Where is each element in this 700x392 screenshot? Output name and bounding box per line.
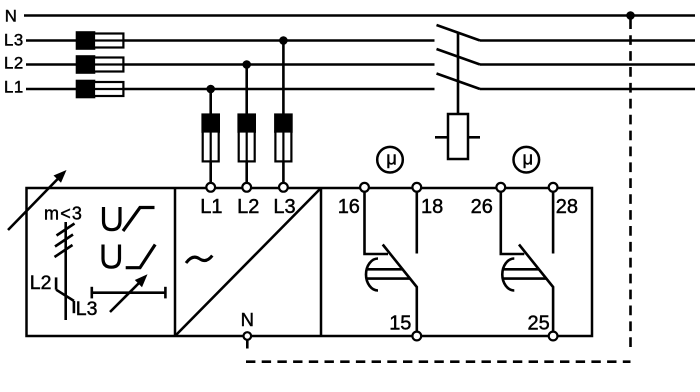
contact 2: terminal 25 [549,332,558,341]
overvoltage symbol U step-up [104,207,155,231]
svg-text:L2: L2 [30,272,52,294]
contact 1: spring line upper [367,268,403,271]
svg-text:N: N [5,7,17,26]
svg-text:L2: L2 [4,54,24,73]
relay symbol mu 1 [377,147,403,173]
contactor K1 linkage [457,33,460,115]
svg-text:μ: μ [386,148,397,169]
undervoltage symbol U step-down [103,245,155,268]
terminal L2 [242,183,251,192]
svg-text:L3: L3 [4,31,24,50]
wire N terminal stub [246,340,249,349]
svg-text:26: 26 [471,196,493,218]
fuse F4 (L1 drop) [203,115,219,162]
bus L1 [26,88,435,91]
hatch tick 3 [55,245,73,257]
dashed N return wire vertical [629,16,632,348]
terminal N [244,332,252,340]
fuse F3 on L3 [77,33,123,49]
svg-text:15: 15 [389,313,411,335]
contact 2: spring arc [502,259,514,291]
terminal L1 [206,183,215,192]
setting arrow through box corner [8,170,67,230]
bus L2 [26,63,435,66]
contact 2: wire 26 [501,192,525,254]
measuring conductor line [64,222,67,320]
svg-text:L3: L3 [273,196,295,218]
contactor K1 pole L3 blade [437,25,481,41]
wire L3 drop [282,41,285,184]
contactor K1 pole L2 blade [437,49,481,65]
contact 2: blade [519,245,553,332]
svg-text:L1: L1 [200,196,222,218]
L2-L3 jumper [56,290,74,301]
monitoring relay box [27,188,593,336]
contact 1: wire 18 [415,192,418,254]
fuse F2 on L2 [77,57,123,73]
fuse F1 on L1 [77,81,123,97]
svg-text:L1: L1 [4,78,24,97]
svg-text:L2: L2 [237,196,259,218]
hatch tick 2 [55,235,73,247]
svg-text:25: 25 [528,313,550,335]
svg-text:N: N [241,309,254,330]
fuse F6 (L3 drop) [275,115,291,162]
wire L2 drop [245,65,248,184]
terminal L3 [279,183,288,192]
svg-text:m<3: m<3 [44,204,83,224]
node L1 tap [206,85,215,94]
contact 2: spring line upper [503,268,539,271]
bus N [24,14,695,17]
hatch tick 1 [57,224,75,236]
contact 1: blade [383,245,417,332]
svg-text:μ: μ [523,148,534,169]
contact 1: terminal 15 [412,332,421,341]
contact 2: spring line lower [503,277,547,280]
node L3 tap [279,36,288,45]
contact 1: spring line lower [366,277,410,280]
node L2 tap [242,60,251,69]
bus L3 [26,39,435,42]
contact 2: terminal 28 [549,183,558,192]
svg-text:28: 28 [556,196,578,218]
contactor K1 pole L1 blade [437,74,481,90]
contact 1: spring arc [366,259,378,291]
L2 terminal tick [55,277,58,289]
contactor K1 coil [435,114,480,159]
contact 1: terminal 16 [360,183,369,192]
divider left|transducer [174,188,177,336]
svg-text:16: 16 [338,196,360,218]
contact 1: wire 16 [365,192,389,254]
setting range bar [92,287,166,299]
wire L1 drop [209,89,212,183]
fuse F5 (L2 drop) [239,115,255,162]
setting range arrow [110,274,148,312]
contact 2: wire 28 [552,192,555,254]
contact 1: terminal 18 [412,183,421,192]
L3 terminal tick [73,301,76,313]
relay symbol mu 2 [514,147,540,173]
dashed N return wire horizontal [246,360,631,363]
node N tap [626,11,635,20]
transducer diagonal [175,188,321,336]
transducer AC tilde [186,256,212,263]
svg-text:L3: L3 [76,298,98,320]
contact 2: terminal 26 [496,183,505,192]
svg-text:18: 18 [421,196,443,218]
divider transducer|relays [320,188,323,336]
